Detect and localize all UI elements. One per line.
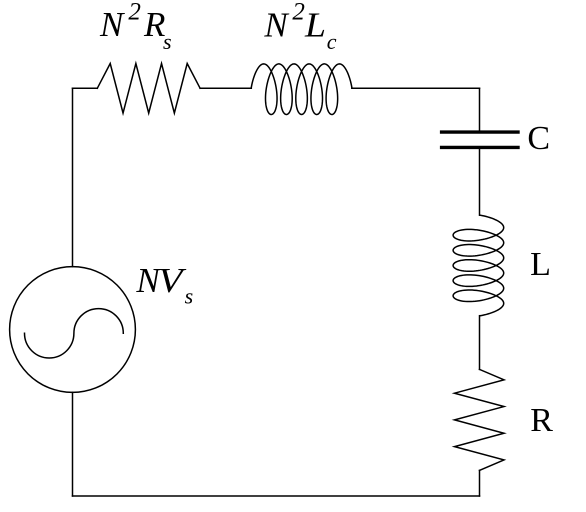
capacitor C bottom plate [442, 146, 518, 149]
wire corner down to capacitor [479, 88, 481, 130]
wire bottom [73, 495, 480, 497]
wire capacitor to inductor L [479, 149, 481, 215]
svg-text:R: R [530, 402, 553, 439]
wire coil to top-right corner [352, 87, 480, 89]
source sine wave [25, 309, 124, 358]
svg-text:s: s [163, 29, 172, 54]
svg-text:L: L [530, 246, 551, 283]
svg-text:C: C [527, 120, 550, 157]
svg-text:2: 2 [292, 0, 305, 26]
svg-text:N: N [99, 5, 125, 44]
svg-text:N: N [263, 5, 289, 44]
svg-text:c: c [327, 29, 337, 54]
resistor N2Rs [97, 64, 200, 114]
wire R to bottom-right corner [479, 470, 481, 496]
wire inductor L to resistor R [479, 316, 481, 370]
wire bottom-left up to source [72, 392, 74, 496]
inductor L [453, 215, 504, 316]
svg-text:2: 2 [128, 0, 141, 26]
wire top-left horizontal [73, 87, 98, 89]
wire resistor to coil [200, 87, 251, 89]
source NVs circle [10, 267, 136, 393]
inductor N2Lc [251, 64, 352, 115]
capacitor C top plate [442, 130, 518, 133]
wire left vertical [72, 88, 74, 266]
svg-text:V: V [158, 261, 187, 300]
resistor R [455, 369, 505, 470]
svg-text:L: L [304, 5, 326, 44]
svg-text:s: s [185, 284, 194, 309]
